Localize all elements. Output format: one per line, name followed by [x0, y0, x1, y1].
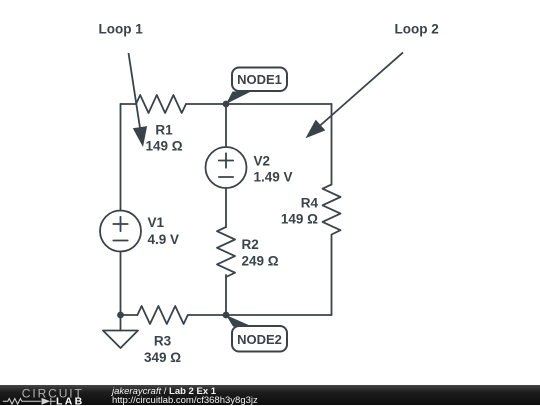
label R2 value: [242, 237, 279, 269]
svg-text:V2: V2: [254, 154, 271, 169]
svg-text:249 Ω: 249 Ω: [242, 254, 279, 269]
voltage source V2: [206, 147, 247, 188]
svg-text:149 Ω: 149 Ω: [145, 139, 182, 154]
svg-text:LAB: LAB: [56, 395, 84, 406]
wire top-left segment: [121, 103, 137, 105]
wire V2 branch upper: [225, 104, 227, 147]
resistor R1: [136, 95, 186, 113]
wire R3 to node B: [188, 314, 226, 316]
label Loop 1: [99, 21, 144, 36]
label R3 value: [144, 334, 181, 366]
svg-text:V1: V1: [148, 215, 165, 230]
svg-text:149 Ω: 149 Ω: [281, 212, 318, 227]
svg-text:349 Ω: 349 Ω: [144, 350, 181, 365]
NODE1 callout pointer: [226, 92, 251, 105]
ground junction dot: [117, 312, 124, 319]
wire node A to top-right corner: [226, 103, 332, 105]
label R4 value: [281, 196, 319, 227]
label V1 value: [148, 215, 180, 247]
svg-text:Loop 1: Loop 1: [99, 21, 144, 36]
resistor R2: [217, 227, 235, 277]
node NODE2 label box: [232, 326, 287, 352]
voltage source V1: [100, 211, 141, 252]
wire node B to bottom-right corner: [226, 314, 332, 316]
CircuitLab logo: [0, 385, 100, 406]
svg-text:R1: R1: [155, 123, 173, 138]
svg-text:R2: R2: [242, 237, 259, 252]
resistor R4: [323, 185, 341, 235]
svg-text:1.49 V: 1.49 V: [254, 170, 293, 185]
Loop 2 arrow: [306, 52, 404, 138]
wire bottom-left segment: [121, 314, 138, 316]
node B junction dot: [223, 312, 230, 319]
wire left rail upper: [120, 104, 122, 211]
footer bar: [0, 385, 540, 406]
node NODE1 label box: [232, 68, 287, 92]
resistor R3: [137, 306, 187, 324]
label R1 value: [145, 123, 182, 154]
ground: [103, 315, 138, 348]
svg-text:NODE2: NODE2: [237, 332, 282, 347]
Loop 1 arrow: [129, 53, 148, 147]
node A junction dot: [223, 101, 230, 108]
label Loop 2: [395, 21, 439, 36]
svg-text:NODE1: NODE1: [237, 72, 282, 87]
wire right rail upper: [331, 104, 333, 185]
svg-text:4.9 V: 4.9 V: [148, 232, 180, 247]
wire R2 to node B: [225, 275, 227, 315]
svg-text:R4: R4: [301, 196, 319, 211]
svg-text:R3: R3: [154, 334, 172, 349]
wire V2 to R2: [225, 188, 227, 227]
svg-text:Loop 2: Loop 2: [395, 21, 439, 36]
wire R1 to node A: [186, 103, 226, 105]
NODE2 callout pointer: [226, 315, 252, 327]
label V2 value: [254, 154, 293, 185]
wire left rail lower: [120, 252, 122, 316]
wire right rail lower: [331, 235, 333, 315]
